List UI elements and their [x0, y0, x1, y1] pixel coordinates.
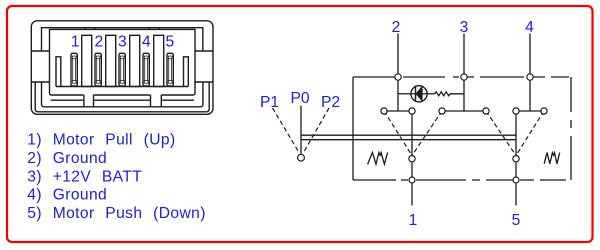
svg-text:3: 3 [118, 34, 127, 51]
svg-text:P0: P0 [290, 90, 309, 107]
svg-text:5) Motor Push (Down): 5) Motor Push (Down) [27, 205, 206, 222]
svg-text:1: 1 [71, 34, 80, 51]
svg-text:3: 3 [460, 19, 469, 36]
svg-text:4: 4 [142, 34, 151, 51]
svg-text:2) Ground: 2) Ground [27, 150, 107, 167]
svg-text:2: 2 [392, 19, 401, 36]
svg-text:5: 5 [512, 212, 521, 229]
svg-text:3) +12V BATT: 3) +12V BATT [27, 168, 142, 185]
svg-text:4) Ground: 4) Ground [27, 187, 107, 204]
svg-text:5: 5 [165, 34, 174, 51]
svg-text:2: 2 [94, 34, 103, 51]
svg-text:P1: P1 [260, 94, 279, 111]
svg-text:P2: P2 [321, 94, 340, 111]
svg-text:1: 1 [409, 212, 418, 229]
svg-text:4: 4 [525, 19, 534, 36]
svg-text:1) Motor Pull (Up): 1) Motor Pull (Up) [27, 132, 175, 149]
